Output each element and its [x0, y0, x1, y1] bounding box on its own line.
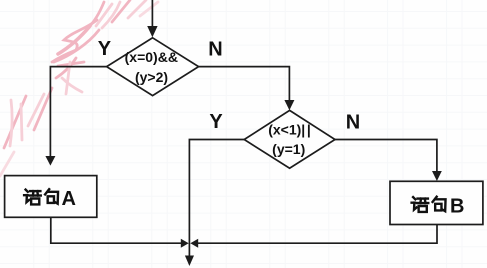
process box: statement A [5, 176, 97, 218]
flowchart [50, 0, 437, 256]
decision diamond 2 [244, 110, 335, 168]
svg-text:(y>2): (y>2) [135, 69, 168, 85]
arrowhead into second decision [284, 100, 294, 110]
arrowheads [45, 26, 441, 266]
text 句 of statement A [45, 189, 58, 203]
wire: statement A output to merge junction [51, 217, 181, 243]
arrowhead merge from left [181, 239, 189, 248]
arrowhead exit bottom [185, 256, 194, 267]
svg-text:(x<1)||: (x<1)|| [268, 122, 311, 138]
arrowhead into first decision [147, 26, 157, 37]
text 语 of statement B [412, 197, 429, 212]
wire: N branch of second decision to statement B [335, 140, 437, 172]
wire: statement B output to merge junction [198, 225, 437, 244]
svg-text:Y: Y [209, 111, 223, 133]
wire: Y branch of first decision to statement A [50, 67, 106, 156]
wire: Y branch of second decision down to merge junction [189, 140, 244, 256]
svg-text:N: N [346, 111, 360, 133]
arrowhead into statement B [432, 171, 442, 181]
svg-text:B: B [450, 196, 464, 218]
svg-text:A: A [62, 188, 76, 210]
process box: statement B [390, 181, 483, 224]
svg-text:N: N [208, 39, 222, 61]
arrowhead into statement A [45, 156, 55, 166]
svg-text:Y: Y [98, 38, 112, 60]
watermark pink strokes [0, 0, 158, 176]
svg-text:(y=1): (y=1) [272, 141, 305, 157]
text 句 of statement B [433, 197, 446, 211]
text 语 of statement A [24, 190, 41, 205]
svg-text:(x=0)&&: (x=0)&& [125, 49, 178, 65]
wire: top entry into first decision [151, 0, 153, 26]
wire: N branch of first decision to second decision [199, 67, 290, 100]
decision diamond 1 [107, 38, 199, 96]
arrowhead merge from right [190, 239, 198, 248]
